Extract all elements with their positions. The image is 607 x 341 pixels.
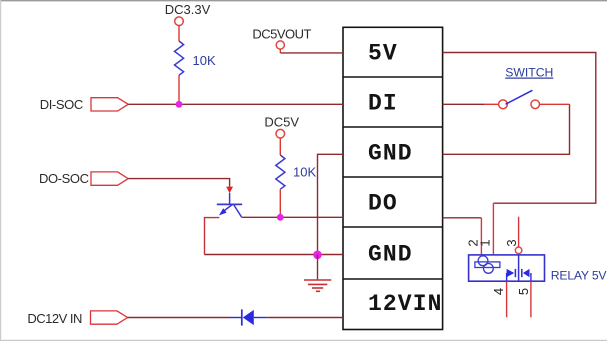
wire 12VIN right — [267, 317, 343, 319]
wire relay pin5 — [530, 281, 532, 317]
wire 5V right rail — [443, 53, 596, 204]
wire relay pin3 stub — [518, 217, 520, 247]
transistor Q1 — [217, 193, 242, 217]
wire R2 top lead — [279, 138, 281, 155]
arrow into base — [226, 187, 233, 194]
svg-text:DO-SOC: DO-SOC — [39, 171, 89, 186]
relay output diodes — [507, 269, 531, 281]
emitter arrow — [219, 208, 227, 215]
svg-text:GND: GND — [368, 242, 413, 268]
wire DO right — [443, 217, 482, 219]
svg-text:DC3.3V: DC3.3V — [165, 2, 211, 17]
resistor R1 10K — [175, 41, 184, 75]
wire DO-SOC to base — [128, 179, 229, 187]
wire ground drop — [317, 255, 319, 280]
svg-text:SWITCH: SWITCH — [505, 66, 553, 80]
port flag DC12V IN — [91, 311, 128, 324]
svg-text:10K: 10K — [293, 165, 316, 180]
wire relay pin2 — [480, 218, 482, 255]
svg-text:DI-SOC: DI-SOC — [40, 97, 83, 112]
relay divider — [518, 255, 520, 281]
wire R2 bottom lead — [279, 189, 281, 217]
junction DO/R2 — [277, 214, 284, 221]
wire DC5VOUT stub — [279, 49, 281, 53]
diode D1 triangle — [243, 310, 254, 325]
ground symbol — [304, 280, 331, 291]
wire GND1 left — [318, 154, 344, 254]
diode D1 — [229, 309, 267, 325]
junction GND — [313, 251, 322, 260]
switch SW1 — [499, 100, 508, 109]
terminal DC5VOUT — [276, 41, 284, 49]
junction DI/R1 — [176, 101, 183, 108]
wire relay pin4 — [506, 281, 508, 317]
terminal DC5V — [276, 129, 285, 138]
wire DI right — [443, 103, 484, 105]
svg-text:RELAY 5V: RELAY 5V — [551, 269, 607, 283]
terminal DC3.3V — [175, 17, 184, 26]
port flag DI-SOC — [91, 98, 128, 111]
svg-text:3: 3 — [504, 239, 519, 246]
svg-text:DC12V IN: DC12V IN — [27, 311, 82, 326]
switch arm — [506, 90, 533, 104]
wire switch to GND return — [540, 103, 570, 105]
svg-text:10K: 10K — [193, 53, 216, 68]
wire R1 top lead — [178, 26, 180, 41]
wire R1 bottom lead — [178, 75, 180, 104]
connector block J1 — [343, 27, 443, 329]
relay coil — [475, 256, 500, 273]
wire DI net — [128, 103, 343, 105]
svg-text:DO: DO — [368, 191, 398, 217]
svg-text:DC5V: DC5V — [264, 115, 299, 130]
svg-text:5: 5 — [516, 288, 531, 295]
wire 12VIN left — [128, 317, 229, 319]
wire GND return — [443, 104, 570, 154]
svg-text:12VIN: 12VIN — [368, 291, 443, 317]
wire GND2 rail — [205, 254, 344, 256]
relay K1 body — [469, 255, 545, 281]
svg-text:4: 4 — [491, 288, 506, 295]
wire DO net collector to block — [241, 216, 343, 218]
port flag DO-SOC — [91, 172, 128, 185]
svg-text:DI: DI — [368, 91, 398, 117]
wire emitter to gnd rail — [205, 218, 220, 255]
resistor R2 10K — [276, 155, 285, 189]
wire 5V left — [280, 52, 343, 54]
svg-text:1: 1 — [478, 239, 493, 246]
svg-text:GND: GND — [368, 141, 413, 167]
svg-text:5V: 5V — [368, 41, 398, 67]
terminal pin3 — [515, 247, 522, 254]
svg-text:DC5VOUT: DC5VOUT — [252, 27, 311, 42]
wire relay pin1 — [492, 203, 494, 255]
